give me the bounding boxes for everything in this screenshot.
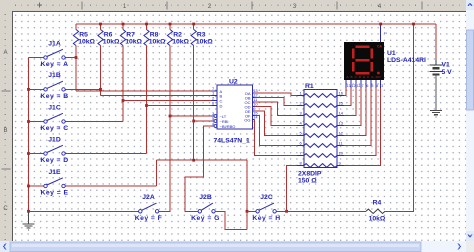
svg-text:OG: OG [244,118,250,123]
wire J1B right feed [65,88,100,90]
wire V1 positive drop [435,24,437,60]
top ruler section dividers [81,2,83,10]
junction R7 at rail [122,23,125,26]
wire node BI from U2 ~BI/RBO down to J2B [185,126,212,211]
svg-text:J1C: J1C [48,104,61,111]
svg-text:74LS47N_1: 74LS47N_1 [214,138,250,145]
switch J1B contacts [44,88,47,91]
R1 element 1 zigzag [304,94,337,98]
U2 pin OC stub [253,101,255,103]
svg-text:1: 1 [300,91,303,96]
U2 pin A stub [212,90,218,92]
svg-text:12: 12 [352,84,356,88]
wire J1D right feed [65,153,146,155]
svg-text:J1B: J1B [48,72,61,79]
R1 right pin 13 stub [337,125,344,127]
display seg f [352,49,354,59]
horizontal scrollbar right arrow [458,244,461,250]
R1 left pin 7 stub [297,155,304,157]
wire R8 top pin [146,24,148,30]
resistor R8 [144,30,149,46]
display seg c [370,62,372,72]
switch J1A contacts [44,56,47,59]
resistor R5 [73,30,78,46]
svg-text:R6: R6 [104,31,113,38]
junction node C wire tap [122,99,125,102]
svg-text:J1D: J1D [48,136,61,143]
wire node D vertical (R8) [146,46,148,154]
wire display pin to R1 pin 14 [344,88,356,116]
svg-text:4: 4 [378,4,382,10]
svg-text:A: A [3,50,7,56]
wire J2C right to DP node [276,210,286,212]
svg-text:2X8DIP: 2X8DIP [298,170,322,177]
wire display pin to R1 pin 15 [344,88,351,106]
switch J1E contacts [44,184,47,187]
display segment pin 6 [365,80,367,88]
wire V1 negative to ground [435,75,437,111]
svg-text:11: 11 [357,84,361,88]
U2 pin D stub [212,105,218,107]
wire +5V top rail [76,23,436,25]
wire node E drop to bottom switches [246,160,248,229]
wire R2 top pin [169,24,171,30]
wire node A to U2 pin A [76,90,212,92]
switch J1D contacts [44,152,47,155]
display seg e [352,62,354,72]
display seg g [356,59,370,61]
svg-text:3: 3 [381,84,383,88]
display segment pin 3 [380,80,382,88]
R1 left pin 4 stub [297,125,304,127]
svg-text:7: 7 [362,84,364,88]
switch J1D lever [47,145,63,152]
vertical scrollbar down arrow [466,231,474,241]
R1 left pin 5 stub [297,135,304,137]
svg-text:10kΩ: 10kΩ [103,38,120,45]
R1 element 5 zigzag [304,134,337,138]
wire node LT vertical (R2 down to J2A) [159,46,170,212]
U2 pin C stub [212,100,218,102]
wire node E horizontal to drop [157,159,248,161]
horizontal scrollbar track [0,241,474,252]
R1 left pin 2 stub [297,105,304,107]
switch J2A lever [142,203,157,210]
R1 left pin 8 stub [297,165,304,167]
switch J1C contacts [44,120,47,123]
svg-text:Key = A: Key = A [40,61,68,68]
horizontal scrollbar left arrow [0,241,10,252]
display seg b [370,49,372,59]
svg-text:R3: R3 [197,31,206,38]
R1 element 7 zigzag [304,154,337,158]
wire J1C left feed [29,121,44,123]
U2 pin OG stub [253,119,255,121]
wire display pin to R1 pin 11 [344,88,371,146]
wire U2 output OC to R1 pin 3 [255,102,298,116]
IC U2 box [217,85,253,129]
svg-text:7: 7 [300,151,303,156]
svg-text:6: 6 [300,141,303,146]
ground symbol V1 [430,110,442,117]
U2 pin ~BI/RBO stub with inversion bubble [212,125,215,127]
display seg d [356,72,370,74]
R1 right pin 14 stub [337,115,344,117]
wire J1B left feed [29,88,44,90]
R1 right pin 15 stub [337,105,344,107]
wire node LT to U2 ~LT pin [170,115,212,117]
wire bottom ground bus [29,210,139,212]
junction DP node [285,210,288,213]
display segment pin 11 [355,80,357,88]
svg-text:10kΩ: 10kΩ [149,38,166,45]
svg-text:10kΩ: 10kΩ [172,38,189,45]
U2 pin OA stub [253,92,255,94]
resistor R2 [167,30,172,46]
R1 right pin 11 stub [337,145,344,147]
U2 pin OF stub [253,115,255,117]
wire J2C left feed [247,210,256,212]
svg-text:10kΩ: 10kΩ [125,38,142,45]
junction J2C left node [246,210,249,213]
switch J2C contacts [256,210,259,213]
junction bus at bottom bus [27,210,30,213]
junction node D wire tap [145,104,148,107]
wire U2 output OA to R1 pin 1 [255,93,298,96]
svg-text:J1E: J1E [48,169,61,176]
svg-text:10kΩ: 10kΩ [78,38,95,45]
svg-text:J1A: J1A [48,40,61,47]
wire node A vertical (R5 to switch and pin A) [75,46,77,92]
svg-text:3: 3 [300,111,303,116]
R1 right pin 12 stub [337,135,344,137]
switch J1C lever [47,113,63,120]
resistor R6 [98,30,103,46]
display segment pin 7 [360,80,362,88]
svg-text:Key = D: Key = D [40,157,68,164]
svg-text:A B C D E F G DP: A B C D E F G DP [347,75,381,79]
wire J1A right feed [65,57,76,59]
svg-text:10kΩ: 10kΩ [369,216,386,223]
R1 right pin 16 stub [337,95,344,97]
R1 element 6 zigzag [304,144,337,148]
R1 element 2 zigzag [304,104,337,108]
left ruler section dividers [2,90,11,92]
resistor R7 [120,30,125,46]
svg-text:6: 6 [212,101,215,106]
wire U2 output OE to R1 pin 5 [255,111,298,136]
svg-text:9: 9 [339,161,342,166]
svg-text:10kΩ: 10kΩ [196,38,213,45]
svg-text:4: 4 [300,121,303,126]
svg-text:Key = E: Key = E [41,190,69,197]
svg-text:C: C [3,206,8,212]
svg-text:R1: R1 [305,83,314,90]
wire J1E right feed [65,185,156,187]
junction node B at J1B [99,88,102,91]
U2 pin ~LT stub with inversion bubble [212,115,215,117]
U2 pin OB stub [253,97,255,99]
U2 pin OE stub [253,110,255,112]
resistor pack R1 box [304,90,337,168]
svg-text:14: 14 [339,111,344,116]
wire node C vertical (R7) [122,46,124,122]
display seg a [356,45,370,47]
wire node E riser to RBI line [156,160,158,186]
svg-text:6: 6 [367,84,369,88]
wire node B to U2 pin B [101,95,212,97]
left ruler ticks [5,15,7,240]
svg-text:LDS-A414RI: LDS-A414RI [387,57,426,64]
switch J2C lever [259,203,274,210]
svg-text:Key = B: Key = B [40,93,68,100]
svg-text:U2: U2 [229,78,238,85]
wire J2B right jog down [215,211,247,229]
wire DP riser to R1 pin 8 [287,166,297,212]
svg-text:~BI/RBO: ~BI/RBO [220,124,236,129]
wire display pin to R1 pin 12 [344,88,366,136]
svg-text:16: 16 [339,91,344,96]
display common anode pin [380,24,382,42]
svg-text:D: D [220,104,223,109]
svg-text:R7: R7 [126,31,135,38]
svg-text:J2B: J2B [199,194,212,201]
svg-text:2: 2 [208,4,212,10]
wire display pin to R1 pin 13 [344,88,361,126]
display U1 body [344,42,384,80]
svg-text:12: 12 [339,131,344,136]
horizontal scrollbar thumb [10,242,421,252]
U2 pin B stub [212,95,218,97]
svg-text:10: 10 [339,151,344,156]
top ruler origin mark [37,3,42,8]
svg-text:13: 13 [347,84,351,88]
resistor R4 [366,209,385,213]
junction CA pin at rail [379,23,382,26]
junction R2 at rail [169,23,172,26]
display segment pin 12 [350,80,352,88]
top ruler ticks [16,5,460,7]
svg-text:2: 2 [300,101,303,106]
vertical scrollbar track [466,0,474,241]
wire R6 top pin [100,24,102,30]
svg-text:5 V: 5 V [442,69,453,76]
svg-text:Key = G: Key = G [191,215,220,222]
svg-text:Key = F: Key = F [135,215,163,222]
wire U2 output OG to R1 pin 7 [255,120,298,156]
display segment pin 4 [375,80,377,88]
svg-text:5: 5 [300,131,303,136]
wire node D to U2 pin D [147,105,212,107]
R1 left pin 6 stub [297,145,304,147]
svg-text:R2: R2 [173,31,182,38]
vertical scrollbar up arrow [466,0,474,10]
switch J2B contacts [198,210,201,213]
wire node B vertical (R6) [100,46,102,96]
svg-text:2: 2 [383,32,387,34]
wire node RBI to U2 ~RBI pin [194,120,212,122]
wire R4 to +5V riser [385,24,414,211]
scrollbar corner [466,241,474,252]
svg-text:150 Ω: 150 Ω [298,178,317,185]
switch J2A contacts [139,210,142,213]
svg-text:15: 15 [339,101,344,106]
wire J2B left feed [185,210,198,212]
switch J2B lever [201,203,213,210]
svg-text:CA: CA [377,45,382,49]
display segment pin 5 [370,80,372,88]
wire J1D left feed [29,153,44,155]
wire J1E left feed [29,185,44,187]
display decimal point [377,72,379,74]
wire DP node to R4 [287,210,366,212]
switch J1B lever [47,81,63,88]
svg-text:13: 13 [339,121,344,126]
svg-text:11: 11 [339,141,344,146]
wire node C to U2 pin C [123,100,212,102]
junction node RBI meets E line [192,159,195,162]
svg-text:1: 1 [123,4,127,10]
wire U2 output OF to R1 pin 6 [255,116,298,146]
svg-text:Key = C: Key = C [40,125,68,132]
junction node LT tap [169,115,172,118]
R1 left pin 3 stub [297,115,304,117]
junction node A at J1A [75,56,78,59]
junction bus at J1C [27,120,30,123]
svg-text:U1: U1 [387,50,396,57]
junction R4 riser at rail [412,23,415,26]
junction R8 at rail [145,23,148,26]
junction node RBI tap [192,120,195,123]
junction bus at J1E [27,185,30,188]
wire R5 top pin [75,24,77,30]
junction R3 at rail [192,23,195,26]
R1 element 4 zigzag [304,124,337,128]
svg-text:5: 5 [372,84,374,88]
svg-text:B: B [3,128,7,134]
svg-text:8: 8 [300,161,303,166]
R1 element 3 zigzag [304,114,337,118]
svg-text:J2A: J2A [142,194,155,201]
wire left ground bus [28,58,30,212]
U2 pin OD stub [253,106,255,108]
svg-text:R8: R8 [150,31,159,38]
wire R3 top pin [193,24,195,30]
wire R7 top pin [122,24,124,30]
svg-text:4: 4 [376,84,378,88]
wire node RBI vertical (R3) [193,46,195,161]
junction bus at J1D [27,152,30,155]
R1 left pin 1 stub [297,95,304,97]
svg-text:R4: R4 [373,200,382,207]
switch J1A lever [47,49,63,56]
svg-text:R5: R5 [79,31,88,38]
resistor R3 [191,30,196,46]
wire display pin to R1 pin 10 [344,88,376,156]
R1 right pin 9 stub [337,165,344,167]
wire bus to ground stem [28,211,30,224]
junction bus at J1B [27,88,30,91]
junction R6 at rail [99,23,102,26]
wire display pin to R1 pin 9 [344,88,381,166]
ground symbol left [23,224,35,230]
wire display pin to R1 pin 16 [344,88,346,96]
R1 right pin 10 stub [337,155,344,157]
svg-text:V1: V1 [442,62,451,69]
wire U2 output OD to R1 pin 4 [255,107,298,126]
vertical scrollbar thumb [467,30,474,110]
R1 element 8 zigzag [304,164,337,168]
display segment pin 13 [345,80,347,88]
switch J1E lever [47,178,63,185]
svg-text:3: 3 [293,4,297,10]
wire J1C right feed [65,121,123,123]
svg-text:J2C: J2C [260,194,273,201]
battery V1 stub top [435,60,437,65]
wire U2 output OB to R1 pin 2 [255,98,298,106]
battery V1 plates [430,65,443,71]
wire J1A left feed [29,57,44,59]
svg-text:Key = H: Key = H [252,215,280,222]
U2 pin ~RBI stub with inversion bubble [212,120,215,122]
